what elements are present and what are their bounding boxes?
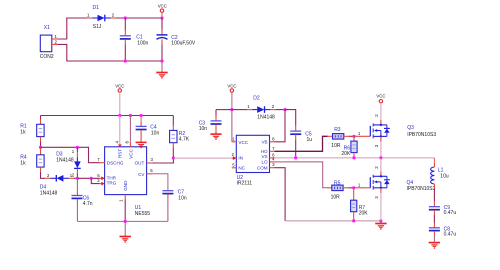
555 SECTION xyxy=(20,84,231,243)
wire VS rail corner down xyxy=(433,158,435,162)
VCC pin 1 wire xyxy=(232,110,236,142)
svg-text:R3: R3 xyxy=(334,127,341,133)
wire node to C5 xyxy=(285,110,296,126)
node gate Q4 xyxy=(352,186,355,189)
OUTPUT SECTION xyxy=(370,94,456,249)
node C4 xyxy=(140,114,143,117)
wire VCC node to D2 xyxy=(232,109,247,111)
VCC symbol top xyxy=(158,4,167,18)
inductor L1 xyxy=(431,162,449,188)
svg-text:VCC: VCC xyxy=(227,84,236,89)
wire to ground xyxy=(124,221,126,236)
wire to Q4 gate xyxy=(354,187,366,189)
VCC rail wire xyxy=(41,115,174,117)
wire Q4 source xyxy=(380,188,382,221)
node R6 bottom xyxy=(352,156,355,159)
driver U2 IR2111 xyxy=(236,135,269,186)
svg-text:R5: R5 xyxy=(334,180,341,186)
svg-text:THR: THR xyxy=(107,175,117,180)
node OUT/R2 xyxy=(172,157,175,160)
capacitor C3 xyxy=(199,110,222,134)
node R1 bottom xyxy=(39,146,42,149)
svg-text:D4: D4 xyxy=(40,184,47,190)
svg-text:IPB70N10S3: IPB70N10S3 xyxy=(407,186,436,192)
capacitor C5 xyxy=(290,126,312,158)
CV pin 5 wire xyxy=(147,168,168,190)
wire to ground xyxy=(161,61,163,72)
555 ground rail wire xyxy=(77,220,167,222)
svg-text:D3: D3 xyxy=(56,151,63,157)
IR2111 SECTION xyxy=(199,84,435,230)
svg-text:CON2: CON2 xyxy=(40,54,54,60)
svg-text:DSCHG: DSCHG xyxy=(107,161,124,166)
diode D1 xyxy=(87,5,116,30)
node VS/C5 xyxy=(294,156,297,159)
svg-text:1N4148: 1N4148 xyxy=(56,158,74,164)
TRG pin 2 arrow xyxy=(97,178,105,185)
svg-text:VCC: VCC xyxy=(238,140,248,145)
capacitor C2 polarized xyxy=(157,18,196,61)
resistor R3 xyxy=(328,127,354,149)
node VCC/D2 xyxy=(230,108,233,111)
svg-text:OUT: OUT xyxy=(135,161,145,166)
svg-text:NC: NC xyxy=(238,166,245,171)
svg-text:D1: D1 xyxy=(93,5,100,11)
VB pin 8 wire xyxy=(270,110,286,142)
wire TRG branch xyxy=(91,178,99,183)
resistor R4 xyxy=(20,147,44,172)
svg-text:RST: RST xyxy=(118,149,123,158)
resistor R5 xyxy=(327,180,354,200)
resistor R6 xyxy=(341,136,357,158)
OUT pin 3 wire xyxy=(147,157,174,163)
wire C9 to C8 xyxy=(433,215,435,223)
svg-text:100uF,50V: 100uF,50V xyxy=(171,41,196,47)
THR pin 6 arrow xyxy=(97,173,105,180)
VCC pin 8 wire xyxy=(125,116,131,147)
diode D2 xyxy=(247,96,285,121)
capacitor C4 xyxy=(136,116,160,143)
svg-text:GND: GND xyxy=(123,180,128,191)
capacitor C7 xyxy=(162,190,186,222)
svg-text:S1J: S1J xyxy=(93,24,102,30)
node VCC pin xyxy=(129,114,132,117)
bottom rail wire xyxy=(125,60,162,62)
timer U1 NE555 xyxy=(105,147,151,217)
svg-text:VS: VS xyxy=(261,154,267,159)
wire THR xyxy=(77,177,99,179)
node junction C1 bottom xyxy=(124,59,127,62)
svg-text:NE555: NE555 xyxy=(135,211,151,217)
svg-text:IPB70N10S3: IPB70N10S3 xyxy=(407,132,436,138)
svg-text:IN: IN xyxy=(238,156,243,161)
wire D1 to VCC node xyxy=(116,17,162,19)
svg-text:1u: 1u xyxy=(307,137,313,143)
svg-text:TRG: TRG xyxy=(107,181,117,186)
wire Q3 source xyxy=(380,136,382,158)
capacitor C8 xyxy=(429,223,456,238)
IN pin 2 arrow xyxy=(232,152,237,160)
VS pin 6 wire xyxy=(270,152,435,158)
svg-text:10R: 10R xyxy=(331,143,341,149)
svg-text:1N4148: 1N4148 xyxy=(257,115,275,121)
resistor R7 xyxy=(351,188,369,221)
svg-text:100n: 100n xyxy=(137,41,148,47)
ground under C4 xyxy=(136,142,147,148)
svg-text:20K: 20K xyxy=(341,151,351,157)
svg-text:X1: X1 xyxy=(44,25,50,31)
svg-text:CV: CV xyxy=(138,172,145,177)
svg-text:20K: 20K xyxy=(359,211,369,217)
NC pin 5 stub xyxy=(232,162,237,168)
ground under U1 xyxy=(120,237,131,243)
resistor R2 xyxy=(170,116,190,159)
node D3 top xyxy=(76,146,79,149)
transistor Q3 xyxy=(370,114,436,147)
ground under C3 xyxy=(210,134,221,140)
wire X1 pin2 to bottom rail xyxy=(58,44,126,61)
ground under C8 xyxy=(429,243,440,249)
LO pin 4 wire xyxy=(270,156,327,187)
wire OUT to IR2111 IN xyxy=(173,157,231,159)
capacitor C9 xyxy=(429,202,456,216)
wire C8 to ground xyxy=(433,236,435,243)
svg-text:LO: LO xyxy=(261,159,268,164)
svg-text:4.7n: 4.7n xyxy=(83,201,93,207)
DSCHG pin 7 xyxy=(97,157,104,163)
wire to Q3 gate xyxy=(354,135,365,137)
ground under Q4 xyxy=(375,224,386,230)
GND pin 1 wire xyxy=(119,195,125,222)
node THR junction xyxy=(76,177,79,180)
svg-text:10R: 10R xyxy=(331,194,341,200)
node Q3 source / VS rail xyxy=(379,156,382,159)
node gnd junction xyxy=(124,220,127,223)
node D2/C5/VB xyxy=(283,108,286,111)
svg-text:0.47u: 0.47u xyxy=(444,210,457,216)
wire to ground xyxy=(380,221,382,223)
svg-text:1N4148: 1N4148 xyxy=(40,191,58,197)
wire DSCHG net xyxy=(41,147,100,162)
diode D4 xyxy=(40,173,78,197)
svg-text:1k: 1k xyxy=(20,129,26,135)
wire X1 pin1 to D1 xyxy=(58,18,88,39)
capacitor C1 xyxy=(120,18,149,61)
wire R4 to D4 xyxy=(41,172,46,178)
COM pin 3 wire xyxy=(270,162,381,221)
svg-text:COM: COM xyxy=(257,166,268,171)
svg-text:0.47u: 0.47u xyxy=(444,231,457,237)
connector X1 xyxy=(40,25,58,60)
HO pin 7 wire xyxy=(270,136,328,151)
svg-text:VB: VB xyxy=(261,140,267,145)
VCC symbol Q3 xyxy=(376,94,385,120)
svg-text:10n: 10n xyxy=(151,131,160,137)
node gate Q3 xyxy=(352,135,355,138)
wire L1 to C9 xyxy=(433,189,435,202)
diode D3 xyxy=(56,147,80,178)
node junction C2 top xyxy=(160,16,163,19)
RST pin arrow xyxy=(114,116,122,148)
svg-text:10u: 10u xyxy=(440,173,449,179)
transistor Q4 xyxy=(370,158,435,199)
node junction C1 top xyxy=(124,16,127,19)
node R7 bottom xyxy=(352,219,355,222)
svg-text:VCC: VCC xyxy=(115,84,124,89)
svg-text:D2: D2 xyxy=(253,96,260,102)
node RST xyxy=(118,114,121,117)
node Q4 source rail xyxy=(379,219,382,222)
svg-text:IR2111: IR2111 xyxy=(237,181,253,187)
resistor R1 xyxy=(20,116,44,148)
svg-text:10n: 10n xyxy=(199,126,208,132)
svg-text:10n: 10n xyxy=(178,196,187,202)
wire branch to C3 xyxy=(216,109,232,111)
TOP SECTION xyxy=(40,4,196,79)
svg-text:4.7K: 4.7K xyxy=(179,137,190,143)
capacitor C6 xyxy=(72,178,93,221)
node TRG branch xyxy=(90,177,93,180)
svg-text:VCC: VCC xyxy=(376,94,385,99)
VCC symbol 555 xyxy=(115,84,124,116)
ground under C2 xyxy=(156,73,167,79)
node junction C2 bottom xyxy=(160,59,163,62)
svg-text:VCC: VCC xyxy=(158,4,167,9)
svg-text:VCC: VCC xyxy=(128,148,133,158)
svg-text:Q3: Q3 xyxy=(407,125,414,131)
svg-text:1k: 1k xyxy=(20,160,26,166)
VCC symbol IR2111 xyxy=(227,84,236,110)
